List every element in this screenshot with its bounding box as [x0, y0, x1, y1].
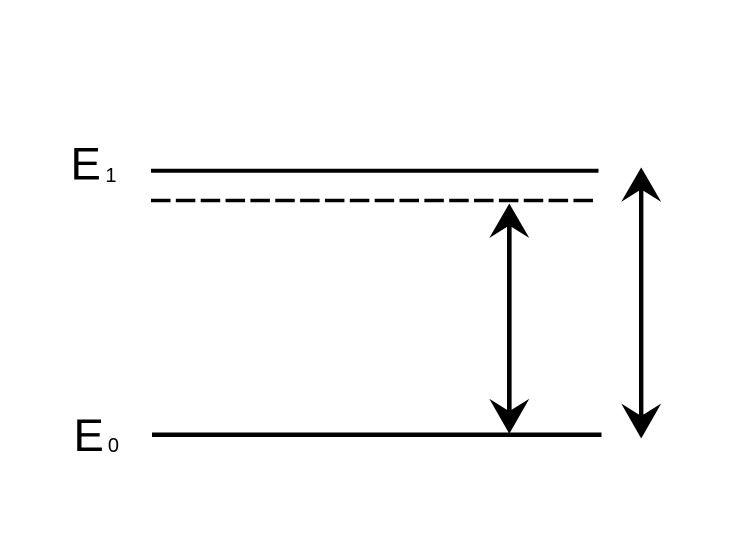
right arrow bottom head [621, 404, 661, 439]
level line E1 (solid) [151, 169, 599, 173]
middle arrow bottom head [489, 399, 529, 434]
right double arrow (E1 to E0) : shaft [639, 186, 643, 420]
middle double arrow (dashed level to E0) : shaft [507, 222, 512, 415]
right arrow top head [621, 167, 661, 202]
shifted level (dashed line) [151, 199, 593, 203]
level line E0 (solid) [152, 433, 602, 438]
middle arrow top head [489, 204, 529, 239]
